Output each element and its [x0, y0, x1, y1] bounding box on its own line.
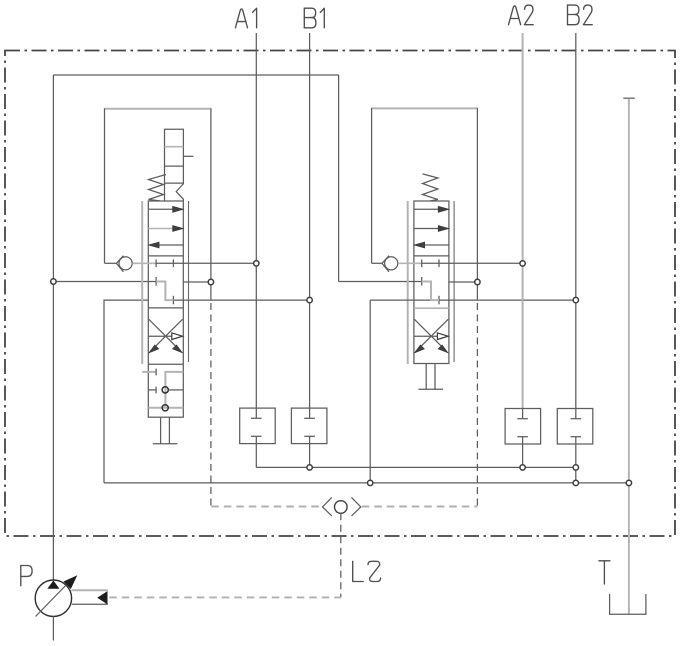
valve1 left frame lower vertical	[104, 300, 148, 483]
pump variable arrow shaft	[36, 581, 71, 617]
wire valve1 bridge to LS node	[183, 281, 211, 283]
pump feed line lower	[72, 603, 108, 605]
wire frame to check seat	[105, 262, 118, 264]
LS dashed drop from shuttle	[340, 513, 342, 597]
valve2 internal gray passage step	[422, 282, 439, 301]
valve1 LS dashed drop	[210, 303, 212, 507]
wire valve2 B-port line to B2	[370, 299, 576, 301]
T line top bar	[623, 97, 635, 99]
label P	[21, 566, 32, 586]
LS gray dashed gallery y=506.5 left	[211, 506, 321, 508]
valve2 check valve seat	[382, 256, 389, 272]
valve1 left rail (gray)	[141, 201, 143, 364]
valve1 compensator stack body	[165, 129, 184, 201]
valve1 frame right / LS tap	[210, 108, 212, 300]
wire A1 drop	[255, 444, 257, 468]
valve1 port tick A-right	[172, 259, 174, 267]
valve1 arrow right 2 (gray shaft)	[148, 228, 174, 230]
valve1 pilot frame top (gray)	[105, 108, 211, 110]
valve1 port tick B-right	[172, 296, 174, 305]
valve2 spool box	[414, 201, 449, 364]
valve2 left rail (gray)	[407, 201, 409, 364]
wire P feed valve2 y=281.5	[339, 281, 422, 283]
shuttle chevron left	[323, 497, 332, 516]
valve2 arrow right 2	[414, 228, 440, 230]
wire A1 line	[255, 33, 257, 408]
port plug box B2	[557, 409, 593, 445]
wire check to port v2 (gray)	[398, 262, 422, 264]
valve2 section divider 2 (gray)	[414, 307, 449, 309]
label LS	[353, 561, 381, 581]
valve1 stack divider 2	[165, 165, 184, 167]
valve2 crossed arrows diag 1	[414, 319, 443, 348]
wire valve1 A-port line to A1	[156, 262, 256, 264]
tank symbol	[610, 594, 646, 614]
valve2 frame left	[371, 108, 373, 263]
pump circle	[35, 580, 71, 616]
wire check to port (gray)	[132, 262, 156, 264]
label B2	[568, 5, 593, 25]
pump outlet triangle	[47, 581, 59, 589]
valve2 port tick A-right	[438, 259, 440, 267]
valve2 LS dashed drop	[476, 303, 478, 507]
wire P feed valve1 y=281.5	[53, 281, 156, 283]
node P branch junction	[0, 0, 1, 1]
node junction circles	[51, 279, 56, 284]
wire B1 drop	[309, 444, 311, 468]
valve1 compensator spring	[149, 175, 167, 201]
valve1 bottom tick 1	[155, 369, 157, 376]
valve1 crossed arrows diag 1	[149, 319, 178, 348]
valve2 frame right / LS tap	[476, 108, 478, 300]
valve2 crossed mid line open arrow	[414, 335, 438, 337]
pump LS arrowhead	[97, 591, 107, 604]
valve1 bottom section gray bottom run	[148, 407, 183, 409]
wire A2 line (gray)	[522, 33, 524, 409]
valve1 stack divider 3	[165, 182, 184, 184]
label T	[599, 561, 610, 584]
wire B2 drop	[575, 444, 577, 483]
valve1 port tick P-left	[155, 277, 157, 286]
valve2 port tick B-right	[438, 296, 440, 305]
wire tank gallery y=483	[104, 482, 629, 484]
valve1 right rail	[188, 201, 190, 362]
wire plugged gallery y=467	[256, 466, 576, 468]
shuttle valve circle	[335, 501, 348, 514]
port plug box A2	[505, 409, 540, 445]
valve1 section divider 3	[148, 363, 183, 365]
wire P riser x=53.4	[52, 75, 54, 580]
label B1	[304, 8, 324, 28]
valve1 frame left	[104, 108, 106, 263]
label A2	[509, 5, 534, 25]
shuttle chevron right	[352, 497, 361, 516]
wire valve2 bridge to LS node	[449, 281, 478, 283]
port plug box A1	[240, 408, 276, 444]
wire T return line (gray)	[628, 99, 630, 614]
LS gray dashed run to pump	[109, 596, 340, 598]
LS gray dashed gallery y=506.5 right	[362, 506, 478, 508]
valve1 stack divider gray	[165, 146, 184, 148]
valve1 arrow left 3	[155, 244, 183, 246]
pump variable arrowhead	[64, 575, 78, 589]
wire A2 drop	[522, 444, 524, 467]
wire valve1 B-port line to B1	[173, 299, 309, 301]
valve1 stack side tap line	[183, 155, 193, 157]
valve2 arrow left 3	[421, 244, 449, 246]
enclosure dash-dot border	[5, 51, 675, 537]
valve1 check valve ball	[119, 257, 132, 270]
pump suction line	[52, 616, 54, 640]
valve2 left lower vertical to tank gallery	[369, 300, 371, 483]
valve1 spool box	[148, 201, 183, 417]
valve1 internal gray passage step	[156, 282, 173, 301]
wire P top header y=75	[53, 74, 338, 76]
valve1 section divider 2	[148, 307, 183, 309]
valve1 orifice circle 1	[162, 387, 168, 393]
valve1 bottom section gray passage	[165, 372, 183, 408]
valve2 drain T bar	[418, 388, 443, 390]
valve1 crossed arrows diag 2	[153, 319, 182, 348]
valve1 arrow right 1	[148, 208, 176, 210]
valve1 check valve seat	[116, 256, 123, 272]
valve2 arrow right 1	[414, 208, 442, 210]
valve1 drain T bar	[153, 443, 178, 445]
label A1	[235, 8, 256, 28]
valve2 section divider 1	[414, 255, 449, 257]
valve1 drain legs	[160, 417, 162, 444]
valve2 spring	[423, 174, 438, 201]
valve2 crossed arrows diag 2	[419, 319, 448, 348]
valve2 pilot frame top (gray)	[372, 107, 478, 109]
valve1 section divider 1	[148, 255, 183, 257]
valve1 bottom dark stub right	[169, 389, 183, 391]
valve2 port tick P-left	[421, 277, 423, 286]
wire P drop to valve2 x=338.6	[338, 75, 340, 282]
valve1 bottom section gray feed left	[142, 371, 156, 373]
valve2 drain legs	[425, 364, 427, 390]
valve2 right rail	[453, 201, 455, 362]
valve1 bottom tick 2	[155, 387, 157, 394]
valve2 check valve ball	[385, 257, 398, 270]
wire B1 line	[309, 33, 311, 408]
valve2 port tick A-left	[421, 259, 423, 267]
valve1 bottom dark stub left	[148, 389, 156, 391]
wire valve2 A-port line to A2	[422, 262, 523, 264]
port plug box B1	[291, 408, 327, 444]
valve1 port tick A-left	[155, 259, 157, 267]
wire frame to check seat v2	[372, 262, 383, 264]
valve1 crossed mid line open arrow	[148, 335, 172, 337]
wire B2 line	[575, 33, 577, 409]
valve1 orifice circle 2	[162, 405, 168, 411]
pump feed line upper	[71, 589, 108, 591]
